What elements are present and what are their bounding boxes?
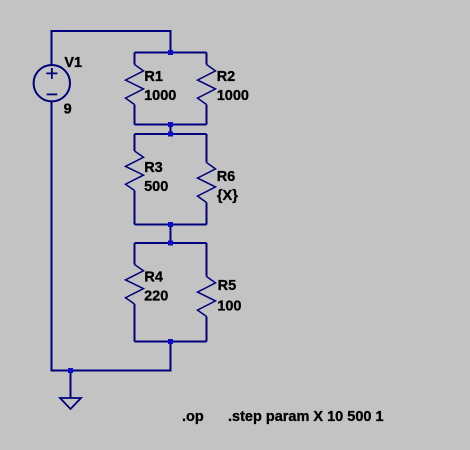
svg-text:R5: R5	[218, 278, 237, 294]
svg-text:500: 500	[144, 179, 168, 195]
wire group3 bottom rail	[135, 341, 207, 343]
node junction g2 bottom	[168, 222, 173, 227]
resistor R4	[126, 243, 144, 342]
svg-text:R6: R6	[217, 169, 236, 185]
svg-text:R4: R4	[144, 270, 163, 286]
node junction g1 bottom	[168, 122, 173, 127]
wire connector group1-group2	[170, 125, 172, 135]
svg-text:9: 9	[64, 102, 72, 118]
svg-text:220: 220	[144, 288, 168, 304]
node junction g3 top	[168, 241, 173, 246]
svg-text:.op: .op	[182, 409, 204, 425]
ground	[60, 398, 81, 409]
wire top rail from V1 to junction column	[52, 31, 171, 65]
resistor R2	[198, 53, 216, 125]
node junction g1 top	[168, 50, 173, 55]
resistor R6	[198, 134, 216, 225]
voltage source V1	[34, 65, 70, 101]
svg-text:R3: R3	[144, 160, 163, 176]
wire connector group2-group3	[170, 225, 172, 244]
node junction g2 top	[168, 132, 173, 137]
wire group2 bottom rail	[135, 224, 207, 226]
svg-text:1000: 1000	[144, 88, 176, 104]
svg-text:1000: 1000	[217, 88, 249, 104]
node junction g3 bottom	[168, 339, 173, 344]
wire group2 top rail	[135, 133, 207, 135]
svg-text:.step param X 10 500 1: .step param X 10 500 1	[228, 409, 384, 425]
svg-text:100: 100	[217, 299, 241, 315]
svg-text:R2: R2	[217, 69, 236, 85]
svg-text:{X}: {X}	[217, 188, 238, 204]
resistor R5	[198, 243, 216, 342]
svg-text:V1: V1	[64, 55, 82, 71]
resistor R3	[126, 134, 144, 225]
wire group1 bottom rail	[135, 124, 207, 126]
wire left rail down and bottom rail to group3 column	[52, 101, 171, 371]
wire group1 top rail	[135, 52, 207, 54]
wire ground stub	[70, 371, 72, 399]
svg-text:R1: R1	[144, 69, 163, 85]
resistor R1	[126, 53, 144, 125]
wire group3 top rail	[135, 242, 207, 244]
node junction ground tap	[68, 368, 73, 373]
